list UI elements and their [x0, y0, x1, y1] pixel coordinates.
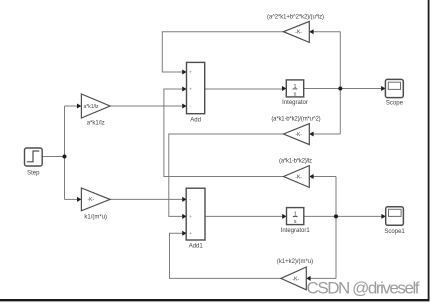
svg-text:Scope1: Scope1 [384, 229, 405, 235]
svg-text:(a*k1-b*k2)/(m*u^2): (a*k1-b*k2)/(m*u^2) [271, 117, 320, 123]
svg-text:-K-: -K- [293, 276, 300, 282]
svg-text:k1/(m*u): k1/(m*u) [84, 215, 107, 221]
svg-text:(a^2*k1+b^2*k2)/(u*lz): (a^2*k1+b^2*k2)/(u*lz) [267, 14, 324, 20]
svg-text:CSDN @driveself: CSDN @driveself [307, 278, 420, 297]
svg-text:+: + [189, 70, 192, 75]
svg-text:s: s [294, 91, 297, 97]
svg-text:Add1: Add1 [189, 244, 204, 250]
svg-text:(a*k1-b*k2)/lz: (a*k1-b*k2)/lz [279, 159, 312, 165]
svg-text:-K-: -K- [295, 175, 302, 181]
svg-text:-K-: -K- [295, 132, 302, 138]
svg-text:+: + [189, 87, 192, 92]
svg-text:+: + [189, 214, 192, 219]
svg-text:-K-: -K- [88, 197, 95, 203]
svg-text:s: s [294, 219, 297, 225]
svg-text:Add: Add [190, 117, 201, 123]
svg-text:-K-: -K- [295, 30, 302, 36]
svg-text:Integrator: Integrator [282, 100, 308, 106]
svg-text:Step: Step [27, 170, 40, 176]
svg-text:(k1+k2)/(m*u): (k1+k2)/(m*u) [277, 259, 313, 265]
svg-text:a*k1/lz: a*k1/lz [87, 121, 105, 127]
svg-text:a*k1/lz: a*k1/lz [84, 104, 100, 110]
svg-text:Integrator1: Integrator1 [281, 228, 311, 234]
svg-text:+: + [189, 231, 192, 236]
svg-text:Scope: Scope [386, 101, 404, 107]
